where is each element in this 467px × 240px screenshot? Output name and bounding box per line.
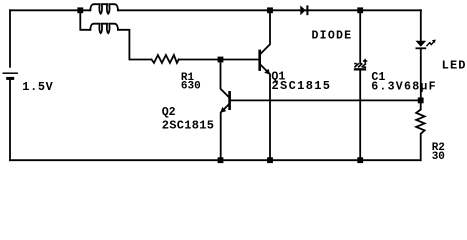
wire winding B to R1 (118, 30, 152, 60)
svg-text:2SC1815: 2SC1815 (272, 79, 332, 93)
transistor Q1 emitter lead (260, 65, 270, 161)
node G junction dot (C1 / top rail) (357, 7, 363, 13)
node C junction dot (R1 / Q1 base / Q2 collector) (218, 57, 224, 63)
wire top rail left segment (10, 9, 90, 11)
transistor Q2 base bar (228, 91, 231, 110)
transistor Q1 emitter arrowhead (264, 69, 270, 75)
svg-text:Q2: Q2 (162, 106, 176, 119)
transistor Q2 collector lead (221, 60, 229, 98)
wire Q2 base to node E (231, 99, 421, 101)
wire R1 to Q1 base (179, 59, 259, 61)
wire left rail lower (battery -) (9, 80, 11, 160)
node H junction dot (C1 / bottom rail) (357, 157, 363, 163)
wire top right corner down to LED anode (420, 10, 422, 40)
node E junction dot (Q2 base / LED / R2) (418, 98, 424, 104)
capacitor C1 hatched positive plate (354, 63, 366, 67)
transistor Q2 emitter lead (221, 104, 229, 160)
wire LED cathode down to node E (420, 49, 422, 100)
resistor R1 zigzag (152, 55, 179, 63)
transistor Q1 base bar (258, 50, 261, 71)
LED D2 emission arrow (426, 40, 436, 47)
diode D1 cathode bar (306, 5, 308, 15)
LED D2 triangle (416, 41, 427, 47)
svg-text:1.5V: 1.5V (22, 80, 53, 94)
svg-text:30: 30 (432, 151, 445, 163)
svg-text:LED: LED (442, 59, 467, 73)
wire left rail upper (battery +) (9, 10, 11, 67)
inductor L1 winding A (90, 4, 118, 14)
node B junction dot (Q1 collector / top rail) (267, 7, 273, 13)
wire capacitor C1 lower lead (359, 70, 361, 160)
svg-text:630: 630 (181, 81, 201, 93)
node D junction dot (Q1 emitter / bottom rail) (267, 157, 273, 163)
LED D2 cathode bar (416, 47, 427, 49)
svg-text:DIODE: DIODE (312, 30, 353, 43)
transistor Q1 collector lead (260, 10, 270, 54)
inductor L1 winding B (90, 24, 118, 34)
wire L1 primary feed down from node A (80, 10, 90, 30)
battery B1 1.5V plates (3, 73, 18, 80)
svg-text:6.3V68µF: 6.3V68µF (371, 80, 437, 93)
svg-text:2SC1815: 2SC1815 (162, 119, 215, 133)
capacitor C1 negative plate (354, 68, 366, 70)
wire top rail middle segment (118, 9, 421, 11)
wire capacitor C1 upper lead (359, 10, 361, 63)
wire bottom rail (10, 159, 421, 161)
capacitor C1 polarity plus sign (363, 59, 367, 63)
node A junction dot (top of windings) (77, 7, 83, 13)
diode D1 triangle (300, 5, 305, 15)
resistor R2 zigzag (416, 100, 424, 160)
node F junction dot (Q2 emitter / bottom rail) (218, 157, 224, 163)
transistor Q2 emitter arrowhead (220, 107, 226, 113)
